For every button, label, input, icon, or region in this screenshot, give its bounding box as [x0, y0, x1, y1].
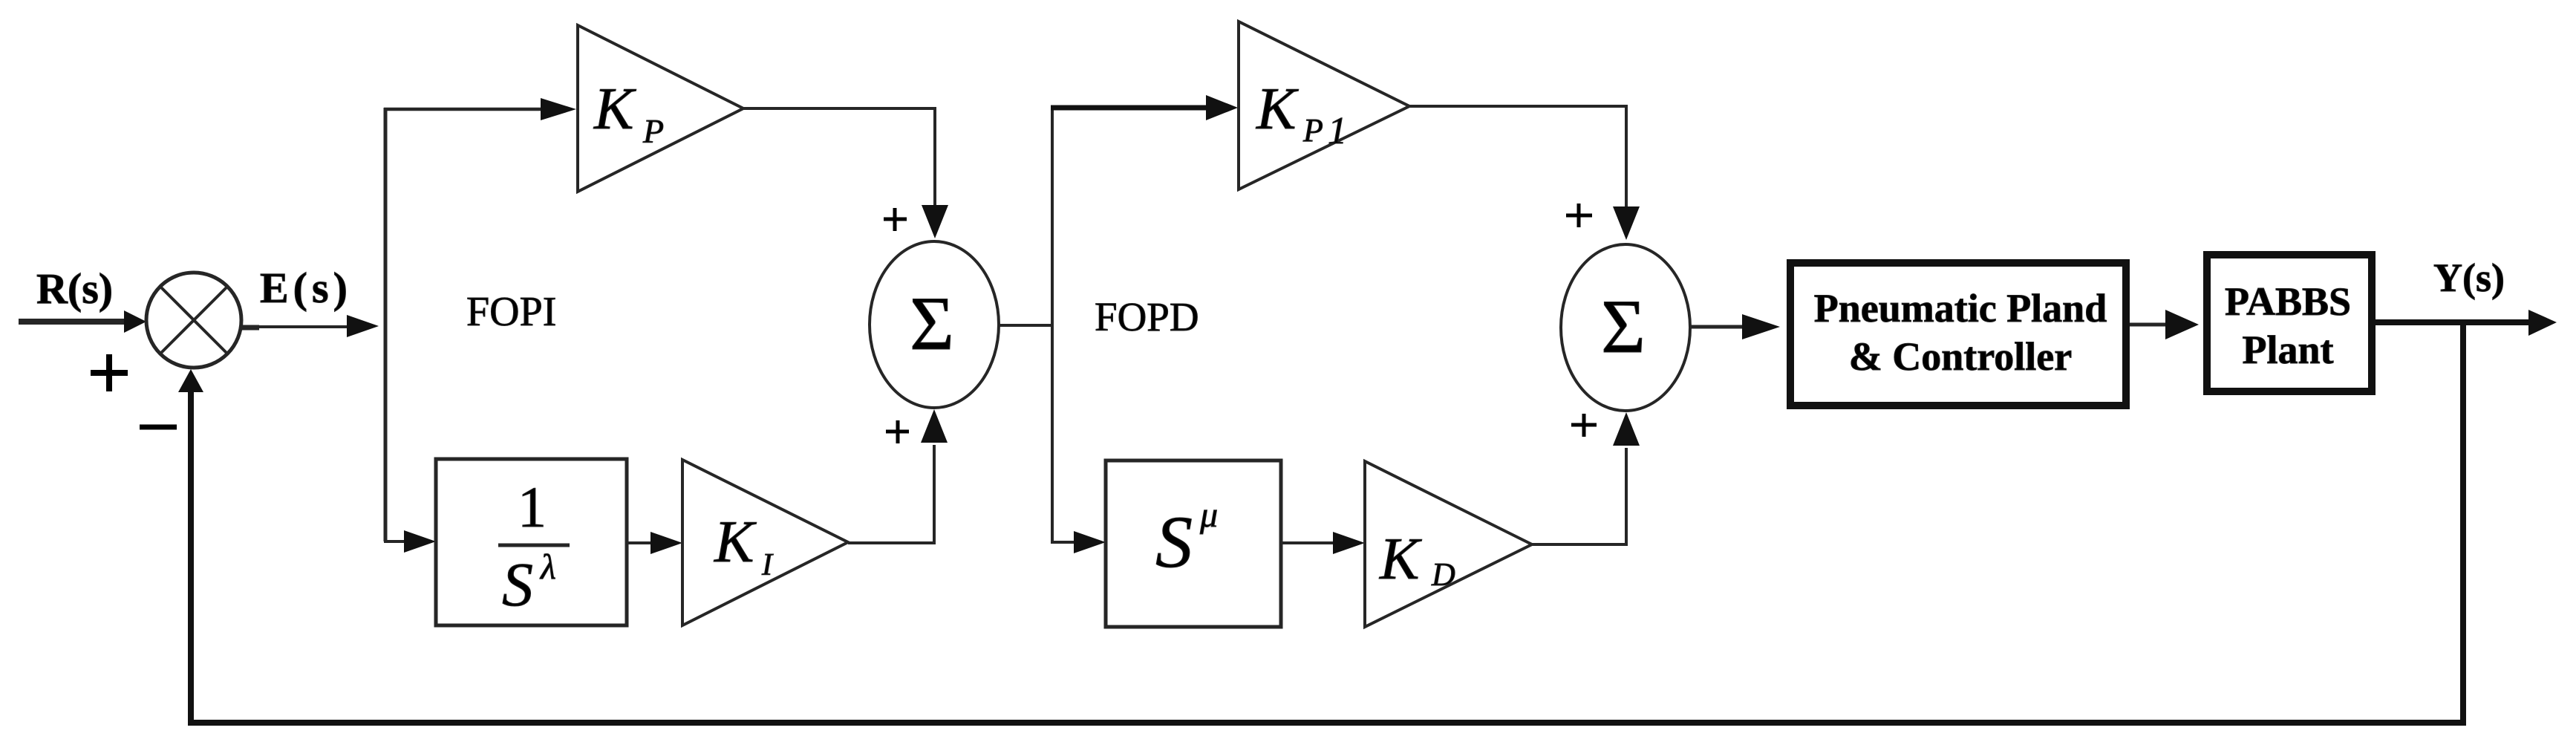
- wire: summer 2 to pneumatic plant box: [1689, 325, 1745, 329]
- gain block KP1 (triangle): [1239, 22, 1409, 189]
- svg-text:λ: λ: [539, 547, 556, 587]
- svg-text:1: 1: [1328, 110, 1347, 152]
- svg-text:Pneumatic Pland: Pneumatic Pland: [1814, 286, 2107, 331]
- block S^mu: [1106, 461, 1281, 627]
- wire: S^mu to KD: [1281, 541, 1334, 544]
- plus sign at summer 1 top input: [884, 218, 907, 221]
- svg-text:I: I: [761, 548, 774, 582]
- minus sign at feedback input: [140, 425, 177, 430]
- gain block KP (triangle): [578, 25, 743, 192]
- svg-text:1: 1: [518, 475, 547, 539]
- node: FOPI branch vertical wire: [384, 108, 388, 541]
- wire: 1/S^lambda to KI: [627, 541, 653, 544]
- block PABBS Plant: [2207, 255, 2372, 391]
- wire: KP1 output to summer 2 top: [1409, 106, 1626, 210]
- svg-text:Σ: Σ: [910, 281, 954, 366]
- svg-text:FOPI: FOPI: [466, 289, 556, 335]
- svg-text:P: P: [1302, 112, 1323, 149]
- plus sign at summing junction input: [91, 370, 128, 376]
- wire: input R(s) arrow: [19, 319, 128, 325]
- wire: feedback right vertical: [2460, 322, 2466, 723]
- svg-text:K: K: [714, 510, 757, 575]
- svg-text:K: K: [1379, 527, 1422, 592]
- gain block KI (triangle): [682, 460, 848, 625]
- svg-text:FOPD: FOPD: [1095, 294, 1199, 339]
- wire to KP1 gain (bold): [1051, 105, 1209, 111]
- plus sign at summer 2 top input: [1566, 214, 1592, 218]
- svg-text:E(s): E(s): [260, 264, 352, 312]
- wire: KD output to summer 2 bottom: [1532, 448, 1626, 544]
- gain block KD (triangle): [1365, 461, 1532, 627]
- wire: feedback into summing junction: [188, 388, 194, 723]
- svg-text:R(s): R(s): [36, 264, 113, 313]
- wire: pneumatic box to PABBS box: [2130, 323, 2167, 327]
- wire: summer 1 output: [998, 324, 1054, 327]
- svg-text:S: S: [502, 550, 533, 619]
- wire to S^mu block: [1051, 541, 1075, 544]
- svg-text:Σ: Σ: [1601, 284, 1646, 369]
- svg-text:K: K: [1256, 77, 1299, 142]
- plus sign at summer 2 bottom input: [1571, 423, 1597, 427]
- svg-text:D: D: [1431, 556, 1455, 593]
- summing junction: [146, 273, 241, 368]
- wire: feedback bottom: [188, 720, 2466, 726]
- wire to KP gain: [384, 108, 545, 111]
- svg-text:& Controller: & Controller: [1849, 334, 2072, 379]
- wire: KP output to summer 1 top: [743, 108, 935, 209]
- wire: output Y(s): [2374, 319, 2531, 325]
- svg-text:Plant: Plant: [2242, 328, 2333, 372]
- svg-text:P: P: [642, 112, 664, 150]
- summing block S2: [1561, 244, 1690, 411]
- wire to 1/S^lambda block: [384, 540, 405, 543]
- svg-text:PABBS: PABBS: [2225, 279, 2351, 324]
- svg-text:μ: μ: [1199, 495, 1218, 535]
- wire: KI output to summer 1 bottom: [848, 445, 934, 543]
- plus sign at summer 1 bottom input: [886, 430, 909, 434]
- svg-text:K: K: [593, 77, 636, 142]
- block Pneumatic Pland & Controller: [1790, 263, 2126, 406]
- svg-text:S: S: [1155, 501, 1193, 583]
- svg-text:Y(s): Y(s): [2433, 256, 2505, 300]
- summing block S1: [870, 241, 999, 408]
- wire: E(s) from summing junction: [241, 325, 259, 331]
- block 1/S^lambda: [436, 459, 627, 625]
- node: FOPD branch vertical wire: [1051, 106, 1054, 543]
